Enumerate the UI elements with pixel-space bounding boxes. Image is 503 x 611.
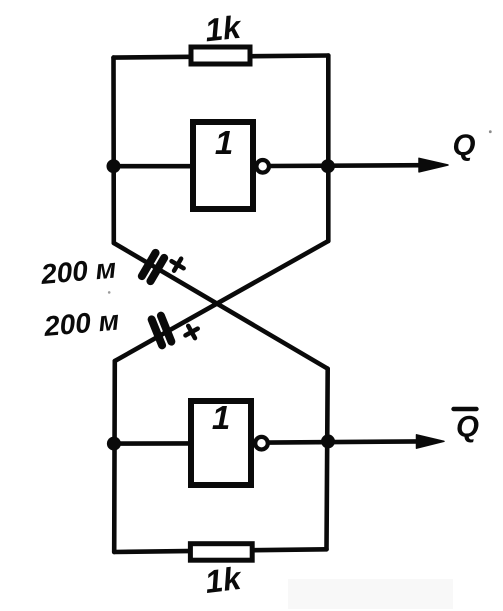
svg-text:200 м: 200 м	[39, 253, 118, 291]
wire top rail	[114, 56, 329, 58]
Q output arrowhead	[419, 158, 448, 172]
svg-text:1k: 1k	[203, 9, 244, 49]
op-amp U1 inverter box	[193, 122, 253, 209]
svg-text:200 м: 200 м	[42, 305, 121, 343]
svg-text:Q: Q	[453, 129, 476, 162]
capacitor C1 polarity plus	[168, 255, 187, 274]
capacitor C2 polarity plus	[182, 322, 201, 341]
node Q junction dot	[321, 159, 335, 173]
Q-bar overline	[454, 407, 477, 411]
capacitor C1 plates	[142, 253, 164, 281]
node B junction dot	[107, 437, 121, 451]
resistor R2 1k	[190, 544, 252, 561]
op-amp U2 inverter box	[191, 401, 251, 485]
svg-text:1k: 1k	[203, 560, 245, 600]
resistor R1 1k	[191, 47, 250, 64]
wire diagonal from right upper rail to node B	[115, 241, 328, 361]
wire left rail lower	[112, 361, 117, 552]
node Q-bar junction dot	[321, 434, 335, 448]
speck near Q	[489, 130, 492, 133]
wire bottom rail	[114, 549, 326, 552]
wire U2 input	[114, 441, 191, 446]
wire U2 output to Q-bar arrow shaft	[268, 441, 420, 442]
svg-text:1: 1	[212, 399, 230, 436]
svg-text:1: 1	[215, 124, 233, 161]
wire U1 input	[114, 164, 194, 169]
wire diagonal from node A to right lower rail	[114, 243, 328, 369]
node A junction dot	[107, 159, 121, 173]
U2 output inversion bubble	[255, 437, 268, 450]
capacitor C2 plates	[152, 316, 172, 346]
wire left rail upper	[111, 58, 116, 243]
watermark area bottom-right	[288, 579, 453, 609]
U1 output inversion bubble	[256, 160, 269, 173]
wire U1 output to Q arrow shaft	[269, 163, 423, 168]
wire right rail lower	[327, 369, 328, 550]
speck below label C1	[108, 291, 111, 294]
Q-bar output arrowhead	[417, 435, 445, 448]
wire right rail upper	[326, 56, 331, 242]
svg-text:Q: Q	[456, 411, 479, 444]
